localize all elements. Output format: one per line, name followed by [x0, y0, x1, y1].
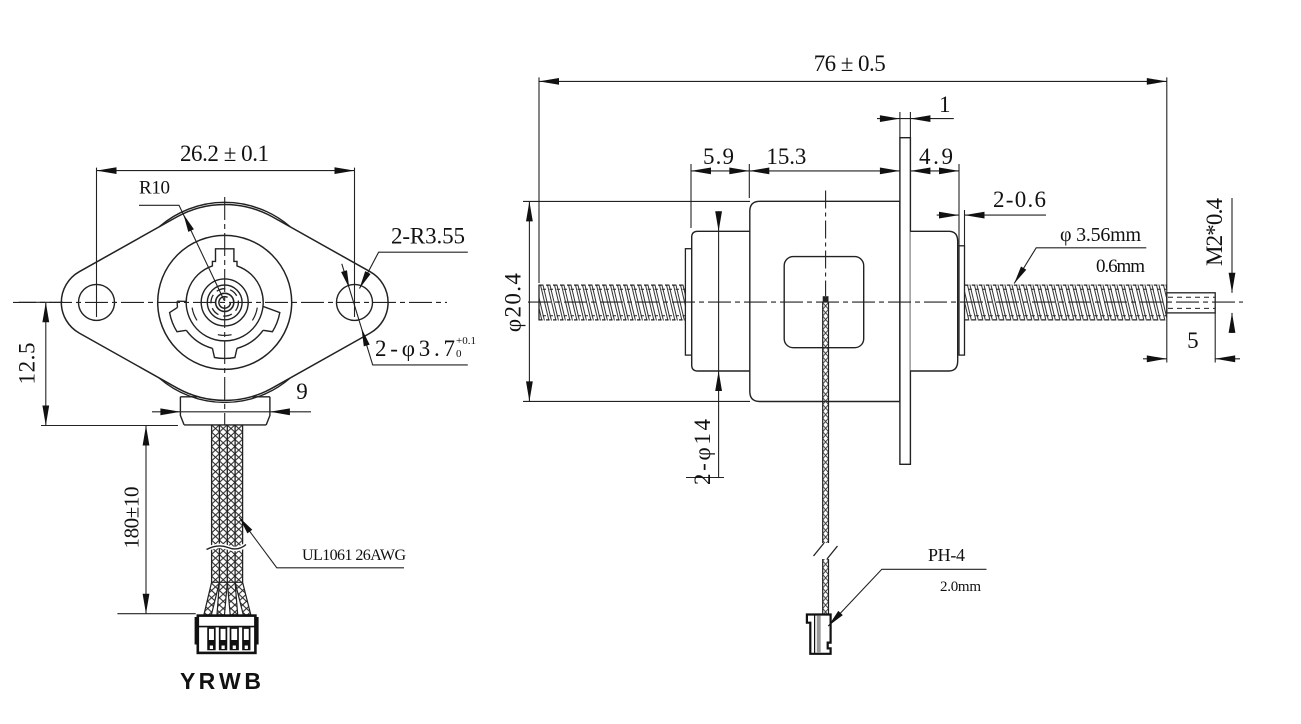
svg-text:+0.1: +0.1: [456, 335, 476, 347]
claw plate step (left): [177, 300, 186, 302]
dimension 26.2 +/- 0.1: [96, 168, 98, 317]
leader phi 3.56mm / 0.6mm: [1014, 248, 1146, 284]
dashed circle: [211, 289, 238, 316]
dimension 76 +/- 0.5: [538, 77, 540, 283]
lead screw left threaded section: [539, 285, 685, 321]
right bearing bushing (phi 14): [910, 231, 957, 371]
motor face circle: [158, 235, 292, 369]
svg-text:R10: R10: [139, 178, 170, 199]
dimension 1 (flange thickness): [899, 112, 901, 138]
claw plate ear/slot at lower left: [170, 307, 187, 331]
motor flange outline (oval plate): [61, 204, 388, 400]
svg-text:5.9: 5.9: [703, 144, 734, 169]
dimension 2-phi14: [718, 211, 720, 477]
svg-text:M2*0.4: M2*0.4: [1202, 198, 1227, 267]
svg-text:15.3: 15.3: [766, 144, 806, 169]
svg-text:26.2 ± 0.1: 26.2 ± 0.1: [180, 141, 269, 166]
claw plate outer ring arcs: [177, 301, 263, 348]
motor body circle arc top (behind flange): [159, 202, 290, 226]
connector housing (front): [198, 616, 256, 653]
left bearing bushing (phi 14): [692, 231, 750, 371]
svg-text:12.5: 12.5: [15, 343, 40, 385]
svg-text:5: 5: [1187, 328, 1199, 353]
connector PH-4 (side): [807, 615, 831, 654]
leader 2-R3.55: [360, 252, 468, 288]
mounting hole right: [337, 284, 373, 320]
mounting boss (neck) below flange: [180, 397, 270, 425]
connector slots and pins: [208, 628, 215, 649]
dimension phi 20.4: [523, 200, 750, 202]
rotor housing square: [784, 257, 864, 348]
svg-text:76 ± 0.5: 76 ± 0.5: [814, 51, 886, 76]
leader 2-phi3.7 with tolerance: [342, 264, 468, 365]
mounting flange plate (side): [900, 138, 911, 465]
dimension 4.9: [958, 164, 960, 246]
dimension 9: [152, 411, 311, 413]
side view vertical centerline: [825, 191, 827, 297]
svg-text:2-φ14: 2-φ14: [690, 419, 715, 486]
dimension 2-0.6 (spring washers): [964, 210, 966, 246]
mounting hole left: [79, 284, 115, 320]
svg-text:PH-4: PH-4: [928, 545, 965, 565]
dimension 15.3: [749, 170, 900, 172]
svg-text:Y R W B: Y R W B: [180, 668, 261, 694]
leader UL1061 26AWG: [239, 517, 404, 568]
svg-text:0: 0: [456, 348, 462, 360]
dimension 5 (tip length): [1166, 292, 1168, 363]
svg-text:4.9: 4.9: [919, 144, 953, 169]
motor can (main block): [750, 201, 900, 401]
M2 threaded tip: [1167, 293, 1215, 313]
bearing circle: [207, 285, 242, 320]
side view horizontal centerline: [528, 301, 1243, 303]
svg-text:2-0.6: 2-0.6: [993, 187, 1046, 212]
left spring washer: [685, 249, 691, 355]
svg-text:φ20.4: φ20.4: [501, 273, 526, 333]
lead screw right threaded section: [965, 285, 1167, 321]
svg-text:UL1061 26AWG: UL1061 26AWG: [302, 547, 406, 564]
dimension M2*0.4: [1231, 198, 1233, 293]
screw tip arc: [219, 297, 231, 309]
leader R10: [139, 205, 224, 300]
right spring washer: [959, 246, 965, 355]
shaft circle: [216, 293, 234, 311]
claw plate ear/slot at bottom: [212, 348, 237, 358]
svg-text:φ 3.56mm: φ 3.56mm: [1060, 224, 1141, 246]
svg-text:2.0mm: 2.0mm: [940, 579, 981, 595]
svg-text:0.6mm: 0.6mm: [1096, 256, 1145, 277]
rotor claw plate with key tab: [186, 249, 263, 341]
dimension 5.9: [690, 164, 692, 228]
motor cable (side view): [823, 296, 829, 302]
leader PH-4 / 2.0mm: [828, 569, 986, 626]
front view horizontal centerline: [13, 301, 447, 303]
front view vertical centerline: [224, 197, 226, 425]
dimension 12.5: [19, 301, 63, 303]
cable break symbol: [814, 543, 838, 559]
wires fan-out to connector: [204, 582, 220, 615]
cable tie: [207, 545, 247, 550]
motor body circle arc bottom (behind flange): [159, 378, 290, 402]
shaft boss circle: [201, 279, 248, 326]
svg-text:9: 9: [296, 379, 308, 404]
claw plate ear/slot at lower right: [263, 306, 280, 331]
svg-text:180±10: 180±10: [120, 487, 144, 549]
svg-text:1: 1: [939, 92, 951, 117]
svg-text:2-R3.55: 2-R3.55: [391, 224, 465, 249]
lead wire bundle: [212, 425, 243, 582]
dimension 180 +/- 10: [117, 613, 195, 615]
